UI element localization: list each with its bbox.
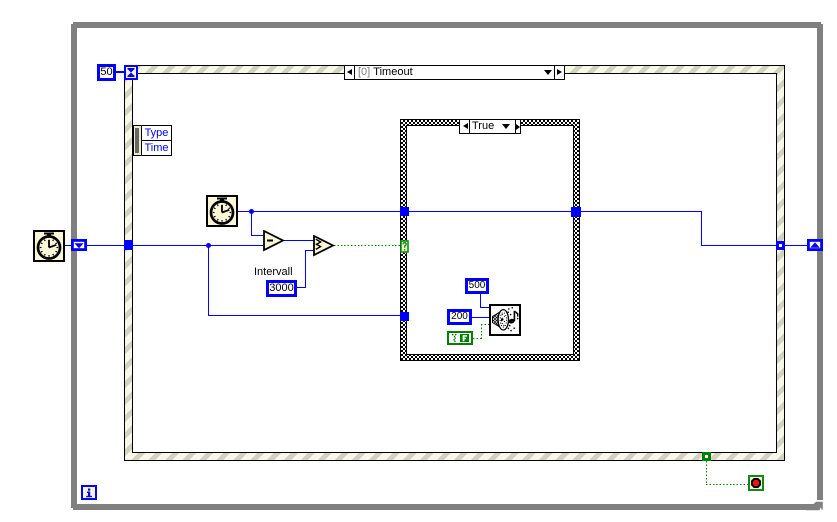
junction dot x251 (249, 209, 254, 214)
selector True (459, 119, 521, 134)
shift register left (71, 239, 87, 251)
wire drop x251 (251, 211, 252, 236)
case selector ? terminal (400, 240, 409, 253)
wire 3000 vertical (305, 250, 306, 288)
while loop bottom border (71, 504, 807, 510)
wire 50 stub (116, 71, 124, 73)
while loop right border (817, 22, 823, 500)
numeric constant 50 (97, 64, 116, 81)
boolean False constant (447, 331, 473, 345)
green dotted tunnel down (706, 461, 707, 484)
event structure outer black (124, 65, 785, 461)
green dotted TF to beep (481, 324, 489, 325)
tunnel case right (571, 207, 581, 217)
tunnel event bottom green (702, 452, 711, 461)
wire 3000 stub h (297, 287, 306, 288)
case structure outer black (400, 119, 580, 361)
wire elbow down (701, 211, 702, 246)
event data node Type/Time (133, 125, 172, 156)
iteration terminal i (81, 485, 97, 500)
tunnel event right (776, 241, 785, 250)
junction dot x208 (206, 243, 211, 248)
event structure hatch border (125, 66, 784, 460)
while loop arrow (806, 501, 824, 511)
clock 2 (tick count) (206, 195, 238, 227)
numeric constant 200 (447, 309, 472, 325)
tunnel event left (solid) (124, 240, 133, 250)
wire into subtract top (251, 235, 263, 236)
green dotted to stop (706, 484, 748, 485)
numeric constant 500 (465, 278, 489, 294)
while loop corner nips (71, 22, 73, 24)
green dotted TF h (473, 338, 482, 339)
stop conditional terminal (748, 475, 764, 491)
selector [0] Timeout (344, 65, 565, 80)
wire clock1 to event tunnel (65, 245, 124, 246)
while loop left border (71, 22, 77, 510)
label Intervall (254, 266, 293, 278)
wire y315 to case (208, 315, 400, 316)
event structure inner black (132, 73, 777, 453)
green dotted TF v (481, 324, 482, 339)
wire case to elbow (580, 211, 701, 212)
tunnel case left bottom (400, 312, 409, 321)
case structure interior (407, 126, 573, 354)
numeric constant 3000 (266, 280, 297, 297)
wire subtract to gte (284, 240, 314, 241)
timeout hourglass terminal (124, 65, 138, 80)
subtract function (263, 230, 285, 252)
clock 1 (tick count) (33, 230, 65, 262)
wire tunnel to subtract (133, 245, 263, 246)
shift register right (807, 239, 823, 251)
wire 200 to beep (472, 317, 489, 318)
wire clock2 to case (238, 211, 400, 212)
green dotted gte to ? (334, 245, 400, 246)
case structure checker border (401, 120, 579, 360)
tunnel case left top (400, 207, 409, 216)
greater or equal function (313, 235, 335, 257)
case structure inner black (406, 125, 574, 355)
wire 500 to beep (480, 307, 489, 308)
event structure interior (133, 74, 776, 452)
beep.vi icon (489, 304, 521, 336)
wire 3000 to gte (305, 250, 314, 251)
wire across case (409, 211, 571, 212)
wire 500 drop v (480, 294, 481, 308)
wire vertical at x208 (208, 245, 209, 316)
while loop top border (71, 22, 823, 28)
wire elbow to event tunnel (701, 245, 776, 246)
wire event tunnel to SR (785, 245, 807, 246)
